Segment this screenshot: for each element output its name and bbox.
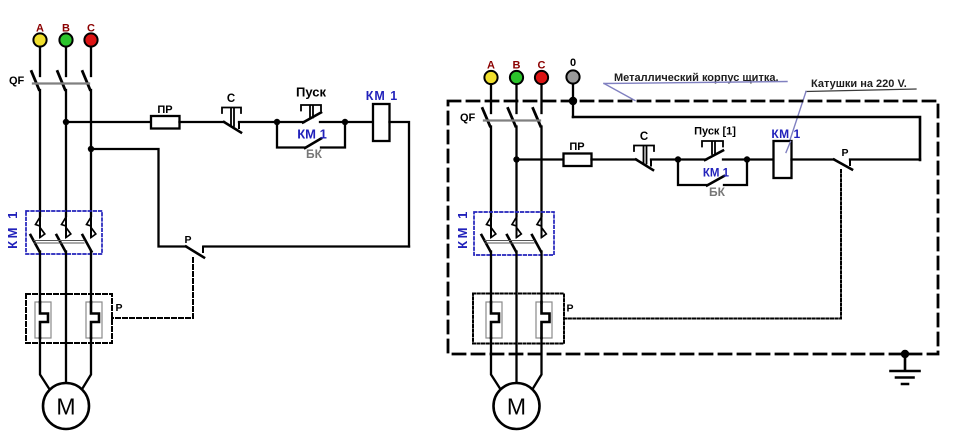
wire phase C lower <box>90 252 92 304</box>
node junction B control tap right <box>513 156 519 162</box>
motor M circle <box>43 383 89 429</box>
contactor pole A blade <box>31 235 40 252</box>
wire branch left drop <box>277 122 305 148</box>
dotted trip link right <box>564 170 841 319</box>
node junction C return tap <box>88 146 94 152</box>
heater element C frame <box>86 302 102 338</box>
pushbutton C actuator <box>222 108 241 127</box>
wire heater A to motor <box>40 338 50 390</box>
wire fuse to stop right <box>592 158 637 160</box>
ground junction dot <box>901 350 909 358</box>
wire fuse to stop button <box>180 121 225 123</box>
wire phase C mid right <box>540 127 542 217</box>
svg-text:Пуск: Пуск <box>296 85 326 100</box>
heater element A frame right <box>486 302 502 338</box>
node junction start-right <box>342 119 348 125</box>
contactor KM1 dotted box <box>26 211 102 254</box>
contactor KM1 dotted box right <box>474 212 554 255</box>
heater element C frame right <box>536 302 552 338</box>
wire node to start blade right <box>678 158 706 160</box>
thermal contact P blade right <box>834 160 852 170</box>
thermal contact P blade <box>186 247 204 258</box>
contactor pole B contact tip <box>62 217 71 238</box>
svg-text:КМ 1: КМ 1 <box>5 209 20 249</box>
auxiliary contact KM1 BK blade right <box>707 176 724 186</box>
wire phase B mid right <box>515 127 517 217</box>
wire phase B lower <box>65 252 67 385</box>
svg-text:0: 0 <box>570 57 576 69</box>
auxiliary contact KM1 BK blade <box>305 139 321 149</box>
svg-text:М: М <box>507 394 526 420</box>
contactor pole C contact tip <box>87 217 96 238</box>
contactor pole B blade <box>57 235 66 252</box>
svg-text:C: C <box>538 60 546 72</box>
lamp B (green) <box>59 33 72 46</box>
label coils underline <box>806 89 916 92</box>
svg-text:КМ 1: КМ 1 <box>455 209 470 249</box>
wire node to coil right <box>747 158 774 160</box>
wire phase B lower right <box>515 252 517 385</box>
contactor right pole C blade <box>532 235 541 252</box>
pushbutton C actuator right <box>634 146 654 164</box>
heater element A <box>40 302 48 338</box>
svg-text:БК: БК <box>709 185 726 199</box>
pushbutton C NC blade right <box>636 160 653 171</box>
dashed trip link vertical <box>112 258 193 318</box>
svg-text:М: М <box>56 394 75 420</box>
wire phase C lower right <box>540 252 542 304</box>
wire return row left <box>91 149 186 247</box>
heater element A right <box>491 302 499 338</box>
fuse PR body <box>151 116 180 129</box>
ground symbol <box>891 354 920 384</box>
wire phase A mid <box>39 90 41 216</box>
contactor pole A contact tip <box>36 217 45 238</box>
fuse PR body right <box>564 154 592 167</box>
node junction B control tap <box>63 119 69 125</box>
thermal relay dashed box <box>26 294 112 343</box>
wire coil output corner <box>390 122 410 247</box>
lamp C right (red) <box>535 71 548 84</box>
contactor right linkage bar <box>485 241 534 244</box>
contactor right pole B tip <box>512 217 521 238</box>
motor M circle right <box>494 383 540 429</box>
label metal enclosure underline <box>604 82 787 84</box>
thermal relay dotted box right <box>473 294 564 344</box>
coil KM1 body <box>373 104 390 141</box>
pushbutton C NC blade <box>224 122 241 133</box>
svg-text:C: C <box>227 93 235 105</box>
contactor right pole C tip <box>537 217 546 238</box>
svg-text:ПР: ПР <box>569 141 584 153</box>
pushbutton C right tick right <box>650 160 652 166</box>
svg-text:ПР: ПР <box>157 104 172 116</box>
wire phase A top right <box>490 85 492 114</box>
wire coil to P contact <box>792 158 835 160</box>
lamp A (yellow) <box>33 33 46 46</box>
wire phase B top <box>65 47 67 76</box>
svg-text:P: P <box>115 302 122 314</box>
pushbutton Pusk actuator right <box>702 141 723 154</box>
pushbutton Pusk NO blade <box>303 113 321 123</box>
wire start button to node <box>320 121 345 123</box>
wire heater C to motor <box>82 338 92 390</box>
wire phase A mid right <box>490 127 492 217</box>
breaker QF pole C blade <box>83 72 91 90</box>
thermal contact P tick right <box>849 160 851 166</box>
lamp A right (yellow) <box>484 71 497 84</box>
lamp C (red) <box>84 33 97 46</box>
contactor right pole A blade <box>482 235 491 252</box>
breaker QF linkage bar <box>33 82 89 84</box>
wire start to node right <box>723 158 747 160</box>
node junction start-left right <box>675 156 681 162</box>
wire stop to node right <box>651 158 678 160</box>
wire stop button to node <box>239 121 277 123</box>
enclosure dashed box <box>448 101 938 354</box>
wire 0 drop <box>572 84 574 117</box>
wire phase A lower right <box>490 252 492 304</box>
wire phase A top <box>39 47 41 76</box>
node junction start-right right <box>744 156 750 162</box>
wire node to coil <box>345 121 373 123</box>
wire node to start blade <box>277 121 304 123</box>
heater element C <box>91 302 99 338</box>
svg-text:QF: QF <box>9 75 25 87</box>
svg-text:КМ 1: КМ 1 <box>703 168 730 180</box>
wire branch rise right <box>724 160 747 186</box>
wire phase C top right <box>540 85 542 114</box>
svg-text:C: C <box>640 131 648 143</box>
wire phase A lower <box>39 252 41 304</box>
svg-text:P: P <box>566 303 573 315</box>
coil KM1 body right <box>774 141 792 178</box>
svg-text:КМ 1: КМ 1 <box>366 89 398 103</box>
label coils pointer <box>786 92 806 153</box>
wire branch right rise <box>321 122 345 148</box>
pushbutton C right terminal tick <box>238 122 240 128</box>
node 0 junction on enclosure <box>569 97 577 105</box>
pushbutton Pusk NO blade right <box>705 151 723 161</box>
svg-text:КМ 1: КМ 1 <box>297 127 327 142</box>
svg-text:Пуск [1]: Пуск [1] <box>694 126 736 138</box>
contactor pole C blade <box>83 235 92 252</box>
wire P contact to 0 bus <box>850 158 920 160</box>
contactor right pole B blade <box>507 235 516 252</box>
wire control row to fuse <box>66 121 151 123</box>
wire 0 bus top <box>573 117 920 160</box>
wire phase C top <box>90 47 92 76</box>
wire heater A to motor right <box>491 338 501 390</box>
pushbutton Pusk actuator <box>301 105 321 118</box>
wire phase C mid <box>90 90 92 216</box>
label metal enclosure pointer <box>604 84 635 101</box>
svg-text:QF: QF <box>460 112 476 124</box>
heater element C right <box>542 302 550 338</box>
svg-text:БК: БК <box>306 147 323 161</box>
wire phase B mid <box>65 90 67 216</box>
svg-text:Катушки на 220 V.: Катушки на 220 V. <box>811 78 907 90</box>
contactor right pole A tip <box>487 217 496 238</box>
wire branch drop right <box>678 160 707 186</box>
breaker QF right pole C blade <box>533 109 541 127</box>
node junction start-left <box>274 119 280 125</box>
wire control row to fuse right <box>517 158 564 160</box>
breaker QF pole A blade <box>32 72 40 90</box>
svg-text:A: A <box>487 60 495 72</box>
breaker QF pole B blade <box>58 72 66 90</box>
svg-text:P: P <box>184 234 191 246</box>
breaker QF right linkage bar <box>484 119 540 121</box>
wire phase B top right <box>515 85 517 114</box>
heater element A frame <box>35 302 51 338</box>
lamp B right (green) <box>510 71 523 84</box>
breaker QF right pole B blade <box>508 109 516 127</box>
svg-text:КМ 1: КМ 1 <box>771 127 800 141</box>
contactor linkage double bar <box>34 241 84 244</box>
svg-text:P: P <box>841 147 848 159</box>
lamp 0 (grey) <box>566 70 579 83</box>
wire return row right <box>204 245 409 247</box>
wire heater C to motor right <box>532 338 542 390</box>
svg-text:B: B <box>513 60 521 72</box>
breaker QF right pole A blade <box>483 109 491 127</box>
label coils pointer overlay inside coil <box>786 142 791 153</box>
thermal contact P right tick <box>202 247 204 253</box>
